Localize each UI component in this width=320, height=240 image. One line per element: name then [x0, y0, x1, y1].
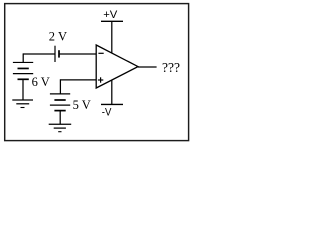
- wire: from 2V battery to op-amp inverting input: [59, 53, 96, 55]
- wire: non-inverting input net horizontal: [60, 79, 96, 81]
- battery V3 5V: long plate 1: [50, 93, 70, 95]
- svg-text:+V: +V: [103, 9, 118, 21]
- battery V3 5V: long plate 2: [50, 104, 70, 106]
- op-amp U1 triangle: [96, 45, 138, 88]
- battery V3 5V: short plate 1: [54, 99, 65, 101]
- ground symbol below 6V battery: [12, 100, 33, 108]
- battery V2 6V: long plate 2: [13, 73, 33, 75]
- wire: 5V battery negative to ground: [59, 111, 61, 125]
- battery V2 6V: short plate 1: [18, 67, 29, 69]
- wire: stub down to 5V battery: [59, 79, 61, 94]
- battery V3 5V: short plate 2: [54, 110, 65, 112]
- battery V1 2V: long plate: [54, 46, 56, 62]
- svg-text:???: ???: [162, 60, 180, 75]
- wire: 6V battery negative to ground: [22, 79, 24, 100]
- svg-text:-V: -V: [102, 106, 112, 118]
- op-amp non-inverting input mark +: [98, 77, 103, 82]
- border frame: [5, 4, 189, 141]
- wire: top net horizontal from node A corner to battery 2V: [23, 53, 55, 55]
- svg-text:5 V: 5 V: [73, 98, 91, 112]
- -V supply rail bar: [101, 103, 123, 105]
- battery V2 6V: long plate 1: [13, 61, 33, 63]
- wire: stub from top net down to 6V battery top: [22, 53, 24, 62]
- op-amp inverting input mark -: [98, 52, 103, 54]
- svg-text:2 V: 2 V: [49, 30, 67, 44]
- ground symbol below 5V battery: [49, 124, 71, 132]
- wire: +V to op-amp top edge: [111, 21, 113, 53]
- wire: op-amp output: [138, 66, 157, 68]
- +V supply rail bar: [101, 20, 123, 22]
- battery V2 6V: short plate 2: [18, 78, 29, 80]
- wire: op-amp bottom edge to -V bar: [111, 80, 113, 104]
- svg-text:6 V: 6 V: [32, 75, 50, 89]
- battery V1 2V: short plate: [58, 50, 60, 57]
